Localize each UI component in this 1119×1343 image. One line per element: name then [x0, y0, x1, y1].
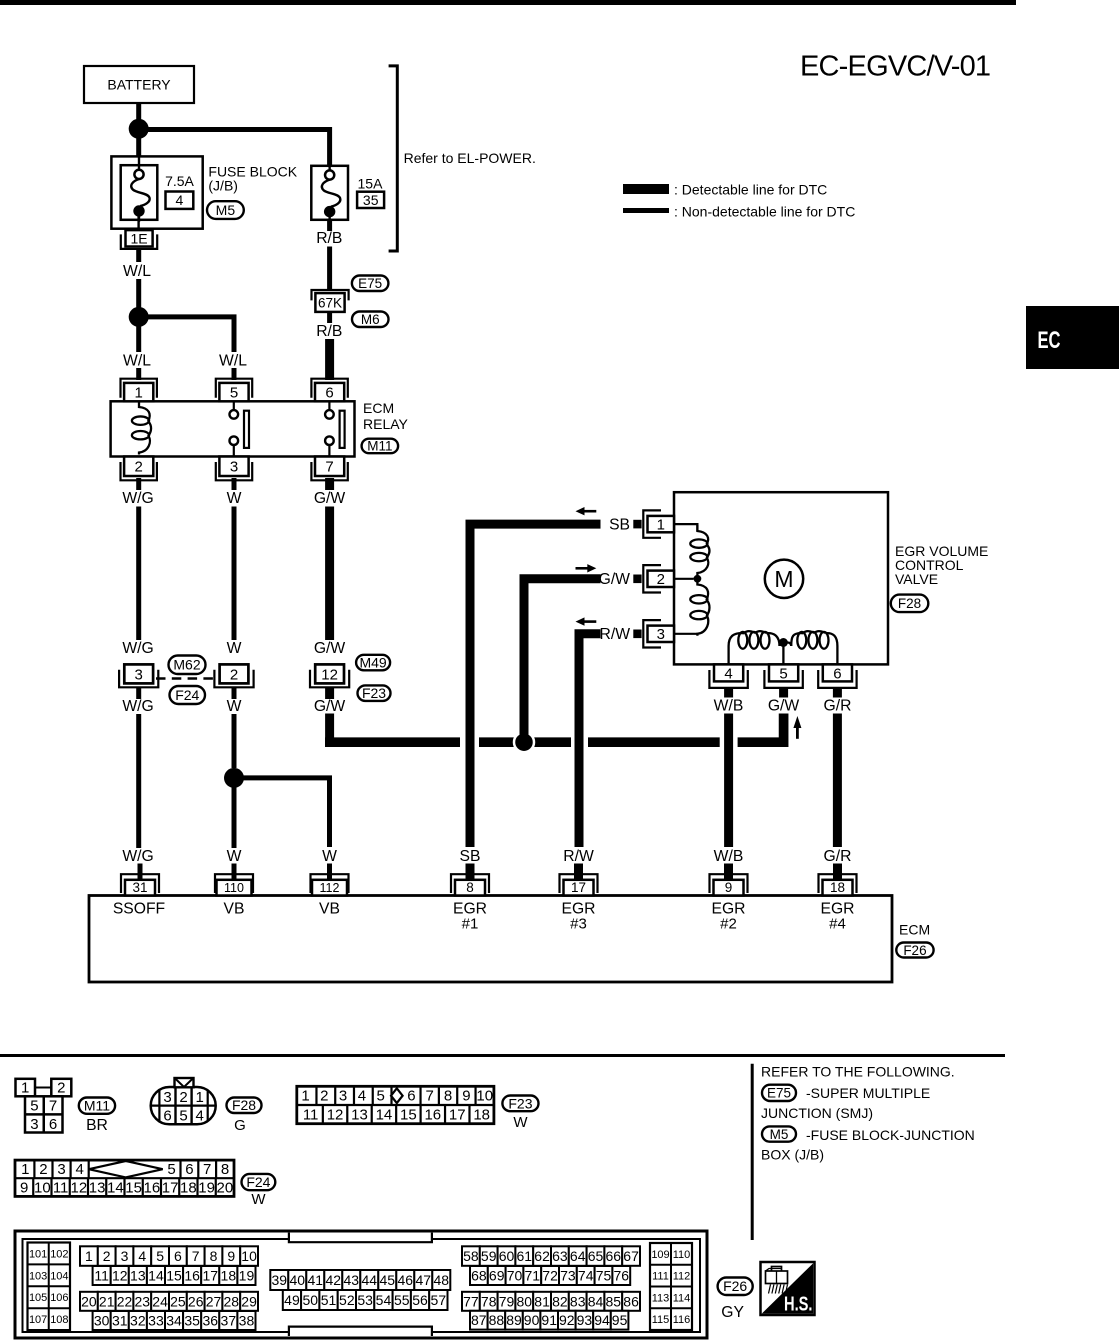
svg-text:82: 82 [552, 1293, 568, 1309]
svg-text:63: 63 [552, 1248, 568, 1264]
svg-text:#3: #3 [570, 916, 587, 933]
svg-text:W/L: W/L [123, 353, 151, 370]
svg-text:30: 30 [94, 1313, 110, 1329]
svg-text:85: 85 [606, 1293, 622, 1309]
svg-text:94: 94 [594, 1312, 610, 1328]
svg-text:6: 6 [49, 1116, 57, 1133]
svg-text:103: 103 [29, 1270, 47, 1282]
svg-text:ECM: ECM [899, 922, 930, 938]
svg-text:18: 18 [473, 1106, 490, 1123]
svg-text:W/B: W/B [714, 848, 744, 865]
svg-text:13: 13 [351, 1106, 368, 1123]
svg-text:GY: GY [721, 1304, 744, 1321]
svg-text:37: 37 [221, 1313, 237, 1329]
svg-text:1: 1 [21, 1080, 29, 1097]
svg-text:F26: F26 [903, 943, 926, 958]
svg-text:1: 1 [135, 385, 143, 402]
svg-text:28: 28 [224, 1293, 240, 1309]
svg-text:2: 2 [103, 1248, 111, 1264]
svg-text:64: 64 [570, 1248, 586, 1264]
svg-text:M11: M11 [84, 1098, 110, 1114]
svg-text:73: 73 [560, 1268, 576, 1284]
svg-text:9: 9 [462, 1088, 470, 1105]
svg-text:1: 1 [301, 1088, 309, 1105]
svg-text:72: 72 [542, 1268, 558, 1284]
svg-text:89: 89 [506, 1312, 522, 1328]
svg-text:2: 2 [657, 571, 665, 588]
svg-text:R/W: R/W [600, 626, 631, 643]
svg-text:16: 16 [184, 1268, 200, 1284]
svg-text:4: 4 [358, 1088, 366, 1105]
svg-text:7.5A: 7.5A [165, 173, 194, 189]
svg-text:76: 76 [614, 1268, 630, 1284]
svg-text:3: 3 [30, 1116, 38, 1133]
svg-text:G/W: G/W [314, 698, 346, 715]
svg-text:M: M [774, 566, 793, 592]
svg-text:12: 12 [321, 666, 338, 683]
svg-text:10: 10 [241, 1248, 257, 1264]
svg-text:52: 52 [339, 1292, 355, 1308]
svg-text:ECM: ECM [363, 400, 394, 416]
svg-text:2: 2 [39, 1161, 47, 1178]
svg-text:12: 12 [71, 1179, 88, 1196]
svg-text:44: 44 [362, 1272, 378, 1288]
svg-text:10: 10 [476, 1088, 493, 1105]
svg-text:3: 3 [57, 1161, 65, 1178]
svg-text:F24: F24 [246, 1174, 270, 1190]
svg-text:-FUSE BLOCK-JUNCTION: -FUSE BLOCK-JUNCTION [806, 1127, 975, 1143]
svg-text:5: 5 [179, 1108, 187, 1125]
svg-text:BOX (J/B): BOX (J/B) [761, 1146, 824, 1162]
svg-text:W: W [227, 698, 242, 715]
svg-text:8: 8 [221, 1161, 229, 1178]
svg-text:6: 6 [185, 1161, 193, 1178]
svg-text:62: 62 [534, 1248, 550, 1264]
svg-text:107: 107 [29, 1314, 47, 1326]
svg-text:1: 1 [85, 1248, 93, 1264]
svg-text:51: 51 [321, 1292, 337, 1308]
svg-text:EC: EC [1038, 327, 1061, 354]
svg-text:15: 15 [166, 1268, 182, 1284]
svg-text:G/W: G/W [599, 571, 631, 588]
svg-text:104: 104 [50, 1270, 68, 1282]
svg-text:20: 20 [81, 1293, 97, 1309]
svg-text:W: W [513, 1114, 528, 1131]
svg-text:53: 53 [357, 1292, 373, 1308]
svg-text:5: 5 [376, 1088, 384, 1105]
svg-text:69: 69 [489, 1268, 505, 1284]
svg-text:12: 12 [112, 1268, 128, 1284]
svg-text:101: 101 [29, 1248, 47, 1260]
svg-text:8: 8 [466, 880, 474, 895]
svg-text:31: 31 [132, 880, 147, 895]
svg-text:3: 3 [657, 626, 665, 643]
svg-text:4: 4 [176, 192, 184, 208]
svg-text:SB: SB [609, 517, 630, 534]
svg-text:16: 16 [144, 1179, 161, 1196]
svg-text:110: 110 [673, 1249, 691, 1261]
svg-text:7: 7 [49, 1098, 57, 1115]
svg-text:G/R: G/R [824, 848, 852, 865]
svg-text:4: 4 [196, 1108, 204, 1125]
svg-text:112: 112 [320, 881, 340, 895]
svg-text:14: 14 [376, 1106, 393, 1123]
svg-text:RELAY: RELAY [363, 416, 409, 432]
svg-text:42: 42 [326, 1272, 342, 1288]
svg-text:5: 5 [156, 1248, 164, 1264]
svg-text:25: 25 [170, 1293, 186, 1309]
svg-text:2: 2 [230, 666, 238, 683]
svg-text:95: 95 [612, 1312, 628, 1328]
svg-text:29: 29 [241, 1293, 257, 1309]
svg-text:15: 15 [400, 1106, 417, 1123]
svg-text:17: 17 [571, 880, 586, 895]
svg-text:27: 27 [206, 1293, 222, 1309]
svg-text:2: 2 [135, 459, 143, 476]
svg-text:3: 3 [121, 1248, 129, 1264]
svg-text:G/W: G/W [314, 490, 346, 507]
svg-text:48: 48 [434, 1272, 450, 1288]
svg-text:G/W: G/W [768, 698, 800, 715]
svg-text:81: 81 [534, 1293, 550, 1309]
svg-text:G/W: G/W [314, 640, 346, 657]
svg-text:105: 105 [29, 1292, 47, 1304]
svg-text:R/B: R/B [316, 230, 342, 247]
svg-text:11: 11 [53, 1179, 69, 1196]
svg-text:R/W: R/W [563, 848, 594, 865]
svg-text:10: 10 [34, 1179, 51, 1196]
svg-text:3: 3 [230, 459, 238, 476]
svg-text:92: 92 [559, 1312, 575, 1328]
svg-text:18: 18 [221, 1268, 237, 1284]
svg-text:11: 11 [303, 1106, 319, 1123]
svg-text:VB: VB [224, 901, 245, 918]
svg-text:W/G: W/G [122, 640, 153, 657]
svg-text:1: 1 [657, 516, 665, 533]
svg-text:60: 60 [499, 1248, 515, 1264]
svg-text:W/B: W/B [714, 698, 744, 715]
svg-text:M49: M49 [359, 655, 386, 671]
svg-text:7: 7 [192, 1248, 200, 1264]
svg-text:M11: M11 [367, 439, 392, 454]
svg-text:F23: F23 [508, 1095, 532, 1111]
svg-text:78: 78 [481, 1293, 497, 1309]
svg-text:115: 115 [652, 1314, 670, 1326]
svg-text:20: 20 [217, 1179, 234, 1196]
svg-text:SSOFF: SSOFF [113, 901, 165, 918]
svg-text:70: 70 [507, 1268, 523, 1284]
svg-text:84: 84 [588, 1293, 604, 1309]
svg-text:W: W [227, 640, 242, 657]
svg-text:108: 108 [50, 1314, 68, 1326]
svg-text:40: 40 [290, 1272, 306, 1288]
svg-text:7: 7 [203, 1161, 211, 1178]
svg-text:W/L: W/L [219, 353, 247, 370]
svg-text:34: 34 [166, 1313, 182, 1329]
svg-text:16: 16 [424, 1106, 441, 1123]
svg-text:6: 6 [407, 1088, 415, 1105]
svg-text:13: 13 [130, 1268, 146, 1284]
svg-text:43: 43 [344, 1272, 360, 1288]
svg-text:39: 39 [272, 1272, 288, 1288]
svg-text:36: 36 [202, 1313, 218, 1329]
svg-text:M5: M5 [216, 202, 236, 218]
svg-text:12: 12 [327, 1106, 344, 1123]
svg-text:79: 79 [499, 1293, 515, 1309]
svg-text:35: 35 [363, 192, 379, 208]
svg-text:22: 22 [117, 1293, 133, 1309]
svg-text:74: 74 [578, 1268, 594, 1284]
svg-text:6: 6 [163, 1108, 171, 1125]
svg-text:M6: M6 [361, 312, 380, 327]
svg-text:4: 4 [75, 1161, 83, 1178]
svg-text:G: G [234, 1117, 246, 1134]
svg-text:13: 13 [89, 1179, 106, 1196]
svg-text:1: 1 [21, 1161, 29, 1178]
svg-text:75: 75 [596, 1268, 612, 1284]
svg-text:77: 77 [463, 1293, 479, 1309]
svg-text:7: 7 [325, 459, 333, 476]
svg-text:65: 65 [588, 1248, 604, 1264]
svg-text:116: 116 [673, 1314, 691, 1326]
svg-text:R/B: R/B [316, 323, 342, 340]
svg-text:66: 66 [606, 1248, 622, 1264]
svg-text:M5: M5 [770, 1127, 789, 1142]
svg-text:2: 2 [320, 1088, 328, 1105]
svg-text:G/R: G/R [824, 698, 852, 715]
svg-text:1E: 1E [130, 230, 147, 246]
svg-text:46: 46 [398, 1272, 414, 1288]
svg-text:54: 54 [376, 1292, 392, 1308]
svg-text:90: 90 [524, 1312, 540, 1328]
svg-text:JUNCTION (SMJ): JUNCTION (SMJ) [761, 1105, 873, 1121]
svg-text:: Detectable line for DTC: : Detectable line for DTC [674, 182, 827, 198]
svg-text:55: 55 [394, 1292, 410, 1308]
svg-text:W/G: W/G [122, 848, 153, 865]
svg-text:114: 114 [673, 1292, 691, 1304]
svg-text:67: 67 [623, 1248, 639, 1264]
svg-text:113: 113 [652, 1292, 670, 1304]
svg-text:11: 11 [94, 1268, 109, 1284]
svg-text:15: 15 [125, 1179, 142, 1196]
svg-text:3: 3 [163, 1089, 171, 1106]
svg-text:93: 93 [577, 1312, 593, 1328]
svg-text:#1: #1 [462, 916, 479, 933]
svg-text:EC-EGVC/V-01: EC-EGVC/V-01 [800, 51, 990, 83]
svg-text:5: 5 [779, 665, 787, 682]
svg-text:8: 8 [444, 1088, 452, 1105]
svg-text:H.S.: H.S. [784, 1294, 813, 1316]
svg-text:5: 5 [230, 385, 238, 402]
svg-text:71: 71 [525, 1268, 541, 1284]
svg-text:BATTERY: BATTERY [107, 77, 171, 93]
svg-text:35: 35 [184, 1313, 200, 1329]
svg-text:49: 49 [284, 1292, 300, 1308]
svg-text:2: 2 [179, 1089, 187, 1106]
svg-text:3: 3 [339, 1088, 347, 1105]
svg-text:BR: BR [86, 1117, 108, 1134]
svg-text:#2: #2 [720, 916, 737, 933]
svg-text:38: 38 [239, 1313, 255, 1329]
svg-text:24: 24 [152, 1293, 168, 1309]
svg-text:5: 5 [30, 1098, 38, 1115]
svg-text:26: 26 [188, 1293, 204, 1309]
svg-text:#4: #4 [829, 916, 846, 933]
svg-text:3: 3 [135, 666, 143, 683]
svg-text:102: 102 [50, 1248, 68, 1260]
svg-text:E75: E75 [358, 276, 382, 291]
svg-text:W: W [227, 848, 242, 865]
svg-text:(J/B): (J/B) [208, 178, 238, 194]
svg-text:9: 9 [725, 880, 733, 895]
svg-text:41: 41 [308, 1272, 324, 1288]
svg-text:32: 32 [130, 1313, 146, 1329]
svg-text:109: 109 [651, 1249, 669, 1261]
svg-text:W: W [227, 490, 242, 507]
svg-text:91: 91 [541, 1312, 557, 1328]
svg-text:19: 19 [239, 1268, 255, 1284]
svg-text:W: W [322, 848, 337, 865]
svg-text:VALVE: VALVE [895, 571, 938, 587]
svg-text:31: 31 [112, 1313, 128, 1329]
svg-text:4: 4 [724, 665, 732, 682]
svg-text:23: 23 [135, 1293, 151, 1309]
svg-text:17: 17 [162, 1179, 179, 1196]
svg-text:VB: VB [319, 901, 340, 918]
svg-text:56: 56 [412, 1292, 428, 1308]
svg-text:F23: F23 [362, 685, 386, 701]
svg-text:18: 18 [830, 880, 845, 895]
svg-text:14: 14 [148, 1268, 164, 1284]
svg-text:58: 58 [463, 1248, 479, 1264]
svg-text:88: 88 [489, 1312, 505, 1328]
svg-text:2: 2 [57, 1080, 65, 1097]
svg-text:47: 47 [416, 1272, 432, 1288]
svg-text:Refer to EL-POWER.: Refer to EL-POWER. [404, 150, 536, 166]
svg-text:14: 14 [107, 1179, 124, 1196]
svg-text:61: 61 [517, 1248, 533, 1264]
svg-text:9: 9 [20, 1179, 28, 1196]
svg-text:5: 5 [167, 1161, 175, 1178]
svg-text:8: 8 [210, 1248, 218, 1264]
svg-text:W/G: W/G [122, 490, 153, 507]
svg-text:15A: 15A [358, 176, 384, 192]
svg-text:17: 17 [202, 1268, 218, 1284]
svg-text:-SUPER MULTIPLE: -SUPER MULTIPLE [806, 1085, 930, 1101]
svg-text:1: 1 [196, 1089, 204, 1106]
svg-text:67K: 67K [318, 296, 342, 311]
svg-text:F26: F26 [723, 1278, 747, 1294]
svg-text:W/L: W/L [123, 263, 151, 280]
svg-text:W: W [251, 1191, 266, 1208]
svg-text:17: 17 [449, 1106, 466, 1123]
svg-text:59: 59 [481, 1248, 497, 1264]
svg-text:F24: F24 [175, 687, 199, 703]
svg-text:19: 19 [198, 1179, 215, 1196]
svg-text:: Non-detectable line for DTC: : Non-detectable line for DTC [674, 204, 855, 220]
svg-text:112: 112 [673, 1271, 691, 1283]
svg-text:33: 33 [148, 1313, 164, 1329]
svg-text:68: 68 [471, 1268, 487, 1284]
svg-text:9: 9 [227, 1248, 235, 1264]
svg-text:86: 86 [623, 1293, 639, 1309]
svg-text:45: 45 [380, 1272, 396, 1288]
svg-text:W/G: W/G [122, 698, 153, 715]
svg-text:6: 6 [833, 665, 841, 682]
svg-text:57: 57 [431, 1292, 447, 1308]
svg-text:111: 111 [652, 1271, 669, 1283]
svg-text:50: 50 [302, 1292, 318, 1308]
svg-text:E75: E75 [767, 1086, 791, 1101]
svg-text:REFER TO THE FOLLOWING.: REFER TO THE FOLLOWING. [761, 1064, 955, 1080]
svg-text:4: 4 [138, 1248, 146, 1264]
svg-text:SB: SB [460, 848, 481, 865]
svg-text:6: 6 [174, 1248, 182, 1264]
svg-text:M62: M62 [173, 657, 200, 673]
svg-text:87: 87 [471, 1312, 487, 1328]
svg-text:18: 18 [180, 1179, 197, 1196]
svg-text:6: 6 [325, 385, 333, 402]
svg-text:F28: F28 [232, 1097, 256, 1113]
svg-text:21: 21 [99, 1293, 115, 1309]
svg-text:110: 110 [224, 881, 244, 895]
svg-text:F28: F28 [898, 596, 921, 611]
svg-text:7: 7 [426, 1088, 434, 1105]
svg-text:80: 80 [517, 1293, 533, 1309]
svg-text:106: 106 [50, 1292, 68, 1304]
svg-text:83: 83 [570, 1293, 586, 1309]
